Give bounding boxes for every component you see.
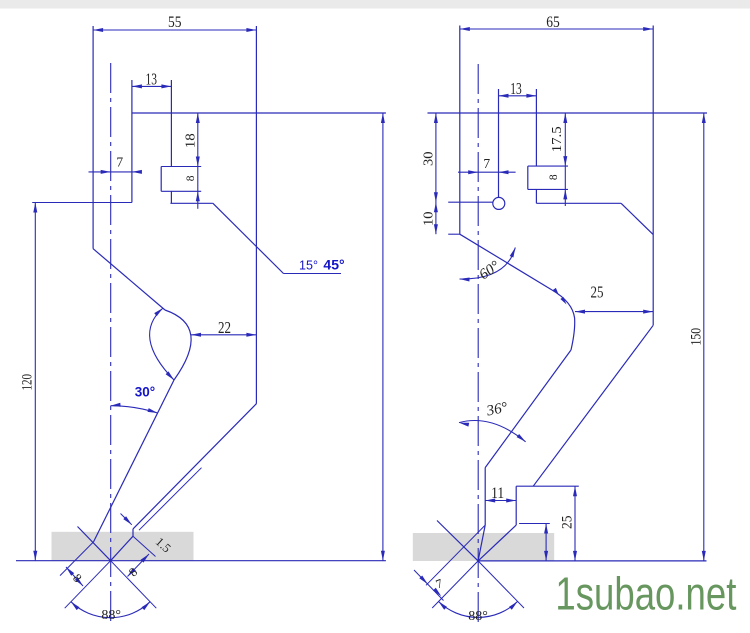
svg-text:22: 22 bbox=[218, 318, 231, 337]
svg-text:7: 7 bbox=[483, 156, 490, 171]
svg-text:18: 18 bbox=[183, 133, 198, 148]
svg-text:25: 25 bbox=[559, 515, 575, 529]
svg-text:10: 10 bbox=[422, 211, 437, 226]
svg-text:17.5: 17.5 bbox=[550, 126, 565, 152]
svg-text:1subao.net: 1subao.net bbox=[555, 568, 736, 620]
svg-text:25: 25 bbox=[591, 282, 604, 301]
svg-text:150: 150 bbox=[689, 328, 705, 346]
svg-text:13: 13 bbox=[510, 79, 522, 98]
svg-text:120: 120 bbox=[20, 374, 36, 391]
svg-text:8: 8 bbox=[548, 174, 560, 180]
svg-text:45°: 45° bbox=[323, 257, 344, 273]
svg-text:88°: 88° bbox=[468, 609, 488, 624]
svg-text:55: 55 bbox=[168, 14, 182, 31]
svg-text:7: 7 bbox=[116, 155, 123, 170]
svg-text:65: 65 bbox=[546, 14, 560, 31]
svg-text:88°: 88° bbox=[101, 608, 121, 623]
svg-text:8: 8 bbox=[185, 175, 197, 181]
svg-text:30: 30 bbox=[422, 151, 437, 166]
svg-text:13: 13 bbox=[145, 70, 157, 89]
svg-text:11: 11 bbox=[491, 485, 504, 502]
svg-text:15°: 15° bbox=[299, 259, 318, 273]
svg-text:30°: 30° bbox=[135, 385, 155, 400]
